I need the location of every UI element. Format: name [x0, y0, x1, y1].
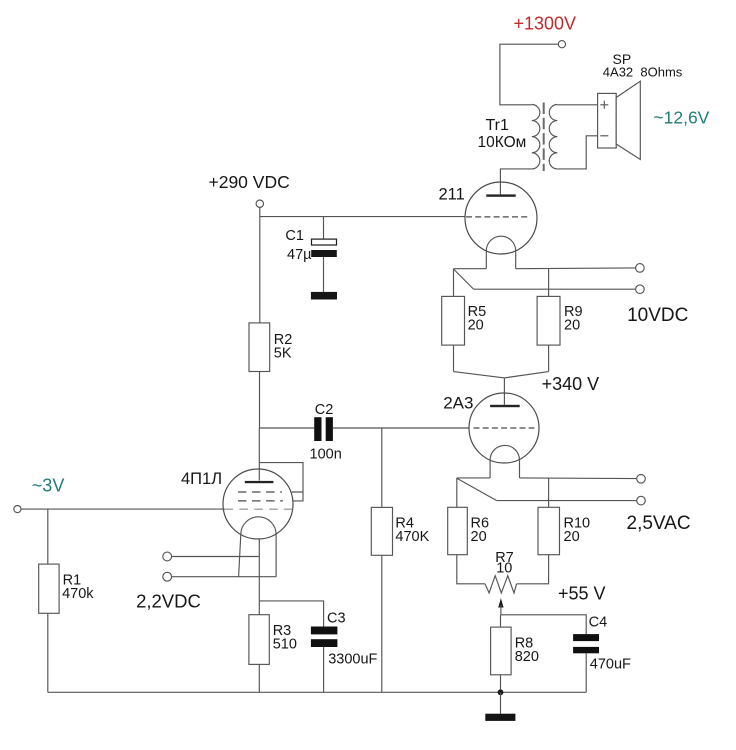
wire R1 top lead — [47, 509, 49, 564]
svg-text:+1300V: +1300V — [514, 13, 577, 33]
wire R9 top lead — [548, 269, 550, 297]
capacitor C4 bottom plate — [573, 647, 599, 653]
wire C1 top lead — [323, 217, 325, 240]
svg-text:4П1Л: 4П1Л — [181, 470, 222, 488]
wire C2 to 2A3 grid — [333, 427, 469, 429]
svg-text:C2: C2 — [315, 402, 334, 418]
terminal 211 filament lower — [636, 285, 645, 294]
wire ground stem — [500, 692, 502, 713]
tube 4П1Л control grid — [225, 508, 293, 510]
terminal +1300V — [558, 41, 565, 48]
speaker minus mark — [600, 135, 608, 137]
resistor R7 zigzag — [485, 576, 517, 593]
resistor R5 — [442, 296, 465, 345]
wire 211 filament right to terminal — [516, 267, 636, 270]
transformer Tr1 secondary winding — [549, 105, 557, 169]
svg-text:+55 V: +55 V — [558, 584, 606, 604]
svg-text:470K: 470K — [395, 529, 429, 545]
tube 2A3 envelope — [469, 393, 539, 463]
wire 4П1Л anode lead — [258, 428, 260, 481]
svg-text:20: 20 — [564, 318, 580, 334]
capacitor C3 bottom plate — [311, 639, 338, 647]
svg-text:470uF: 470uF — [590, 657, 631, 673]
svg-text:20: 20 — [564, 529, 580, 545]
svg-text:~12,6V: ~12,6V — [653, 108, 709, 128]
wire R5 bottom lead — [453, 345, 455, 372]
tube 2A3 grid — [474, 427, 535, 429]
wire input to 4П1Л grid — [21, 508, 225, 510]
terminal 211 filament upper — [636, 264, 645, 273]
wire R5 top lead — [453, 269, 455, 297]
svg-text:820: 820 — [515, 649, 539, 665]
svg-text:3300uF: 3300uF — [328, 652, 377, 668]
tube 4П1Л anode bar — [245, 481, 274, 483]
R7 wiper arrow — [498, 598, 503, 607]
wire screen tie to anode — [259, 463, 303, 501]
wire R4 top lead — [381, 428, 383, 507]
ground symbol — [485, 714, 515, 721]
wire C3 bottom lead — [323, 647, 325, 692]
tube 211 filament legs — [486, 251, 515, 269]
wire lower filament bus to terminal — [473, 288, 635, 290]
wire plate node to C2 — [260, 427, 315, 429]
wire secondary bottom to speaker minus — [557, 136, 597, 169]
terminal 4П1Л filament lower — [163, 572, 172, 581]
wire diagonal corner to lower filament bus — [454, 269, 474, 289]
terminal 2A3 filament upper — [637, 475, 646, 484]
svg-text:10: 10 — [496, 561, 512, 577]
svg-text:2,5VAC: 2,5VAC — [627, 513, 691, 534]
wire R1 bottom lead — [47, 613, 49, 692]
ground below C1 — [311, 292, 337, 300]
tube 211 anode bar — [486, 194, 515, 196]
svg-text:100n: 100n — [310, 447, 342, 463]
wire R10 bottom to R7 — [517, 555, 549, 584]
resistor R3 — [249, 615, 269, 665]
transformer Tr1 primary winding — [532, 105, 540, 169]
wire R8 top lead — [500, 615, 502, 627]
terminal 4П1Л filament upper — [163, 552, 172, 561]
svg-text:2,2VDC: 2,2VDC — [136, 590, 201, 611]
wire C1 bottom lead — [323, 257, 325, 292]
svg-text:20: 20 — [471, 529, 487, 545]
resistor R10 — [538, 507, 560, 554]
tube 2A3 filament legs — [490, 460, 519, 478]
svg-text:470k: 470k — [62, 586, 94, 602]
svg-text:10VDC: 10VDC — [627, 305, 688, 326]
wire 2A3 filament right to terminal — [520, 477, 637, 480]
tube 211 envelope — [465, 182, 537, 254]
wire secondary top to speaker plus — [557, 104, 597, 106]
capacitor C2 left plate — [314, 417, 321, 441]
speaker SP body — [598, 93, 617, 148]
tube 2A3 anode bar — [490, 405, 520, 407]
tube 4П1Л envelope — [223, 469, 293, 539]
resistor R4 — [371, 507, 392, 555]
junction dot ground node — [498, 689, 504, 695]
wire upper filament terminal — [172, 556, 260, 558]
wire +290 node to 211 grid — [260, 216, 466, 218]
wire R3 top lead — [258, 601, 260, 615]
svg-text:2A3: 2A3 — [443, 393, 473, 412]
wire lower bus to terminal — [497, 500, 637, 502]
svg-text:Tr1: Tr1 — [486, 117, 510, 134]
tube 2A3 filament — [490, 445, 519, 460]
tube 4П1Л cathode lead — [258, 539, 260, 601]
resistor R1 — [39, 564, 59, 613]
wire from +1300V terminal to transformer primary — [500, 44, 558, 105]
speaker plus mark — [600, 101, 608, 109]
resistor R9 — [537, 296, 560, 345]
speaker SP cone — [616, 81, 640, 159]
tube 211 filament — [486, 236, 515, 251]
wire primary bottom to 211 anode — [500, 169, 531, 195]
tube 4П1Л filament — [241, 517, 276, 535]
capacitor C4 top plate — [573, 634, 599, 641]
terminal input — [14, 506, 21, 513]
wire R4 bottom lead — [381, 555, 383, 692]
transformer core — [543, 103, 545, 172]
svg-text:20: 20 — [468, 318, 484, 334]
wire R2 bottom to C2 node — [259, 372, 261, 429]
svg-text:+290 VDC: +290 VDC — [209, 172, 290, 192]
wire wiper node to C4 — [501, 615, 586, 634]
tube 4П1Л screen grid — [238, 491, 282, 493]
svg-text:C4: C4 — [589, 615, 608, 631]
svg-text:211: 211 — [439, 185, 465, 203]
wire R6 bottom to R7 — [457, 555, 485, 584]
capacitor C1 positive plate — [312, 239, 337, 245]
wire R10 top lead — [548, 478, 550, 507]
svg-text:5K: 5K — [274, 345, 292, 361]
capacitor C2 right plate — [326, 417, 333, 441]
wire ground bus — [48, 691, 586, 693]
wire 2A3 filament left to R6 corner — [457, 477, 490, 479]
wire C4 bottom lead — [585, 653, 587, 692]
wire lower filament terminal — [172, 576, 277, 578]
resistor R8 — [491, 627, 512, 675]
tube 211 grid — [466, 216, 528, 218]
wire cathode node to C3 — [259, 601, 323, 627]
wire R3 bottom lead — [258, 664, 260, 692]
svg-text:47µ: 47µ — [287, 247, 312, 263]
wire diagonal corner to lower bus — [457, 478, 497, 500]
wire R6 top lead — [456, 478, 458, 507]
wire +290 node vertical to R2 — [259, 207, 261, 323]
tube 4П1Л suppressor grid — [238, 500, 283, 502]
svg-text:4A32 8Ohms: 4A32 8Ohms — [603, 64, 683, 79]
resistor R6 — [448, 507, 468, 554]
svg-text:510: 510 — [273, 637, 297, 653]
capacitor C3 top plate — [311, 627, 338, 635]
wire R9 bottom lead — [548, 345, 550, 372]
svg-text:+340 V: +340 V — [542, 374, 600, 394]
svg-text:~3V: ~3V — [32, 476, 65, 496]
wire V junction to 2A3 anode — [454, 372, 549, 405]
terminal 2A3 filament lower — [637, 496, 646, 505]
wire 211 filament left to R5 corner — [454, 268, 487, 270]
svg-text:10КОм: 10КОм — [478, 134, 527, 151]
capacitor C1 negative plate — [311, 250, 337, 257]
wire R8 bottom lead — [500, 675, 502, 693]
resistor R2 — [249, 323, 270, 372]
svg-text:C3: C3 — [327, 610, 346, 626]
svg-text:C1: C1 — [285, 228, 304, 244]
tube 4П1Л filament legs — [239, 535, 277, 577]
terminal +290 VDC — [256, 200, 263, 207]
